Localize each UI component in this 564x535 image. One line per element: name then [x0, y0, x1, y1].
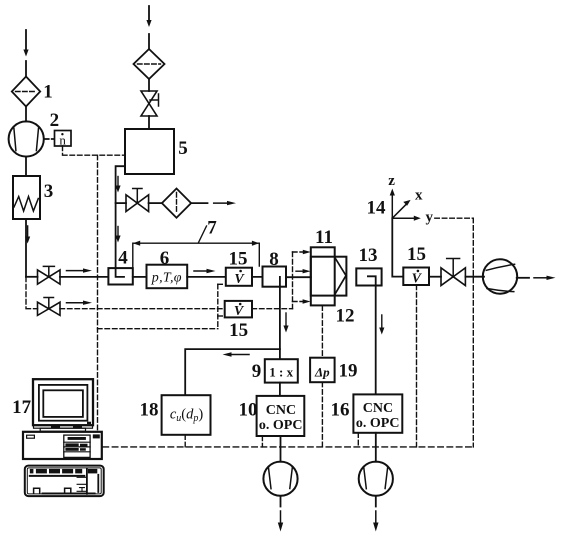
wire inside box13 down to box16 with side arrow	[368, 276, 385, 394]
svg-text:p,T,φ: p,T,φ	[151, 271, 182, 286]
wire to valve V1	[26, 276, 38, 278]
bypass dashed arrows into chamber	[293, 250, 311, 309]
wire sensor2 to node (dashed signal)	[63, 146, 126, 155]
box 8 (sampling head)	[263, 267, 287, 287]
svg-text:10: 10	[239, 400, 258, 421]
filter 2	[134, 49, 165, 79]
svg-text:CNC: CNC	[363, 401, 393, 416]
wire sensor link (dashed)	[44, 138, 54, 140]
svg-text:CNC: CNC	[266, 403, 296, 418]
box 15a (flow meter V-dot)	[226, 268, 252, 286]
valve V4 (bypass)	[38, 298, 61, 316]
wire box15c to valve V3	[429, 276, 441, 278]
valve V3 (outlet)	[441, 259, 465, 286]
box 15c (outlet flow meter)	[403, 268, 429, 286]
dashed signal box15c to bus	[416, 285, 418, 447]
wire filter2 to valve V2	[148, 79, 150, 91]
svg-text:19: 19	[339, 361, 358, 382]
dashed dp to chamber and to bus	[321, 306, 323, 447]
filter 3 (vent filter)	[162, 189, 191, 218]
svg-text:7: 7	[207, 218, 217, 239]
wire box16 to blower B5	[375, 433, 377, 462]
svg-text:V: V	[412, 271, 423, 286]
dashed links to bus	[185, 433, 358, 447]
dp box 19	[310, 358, 335, 383]
svg-text:16: 16	[331, 400, 350, 421]
box 13 (outlet nozzle)	[356, 268, 381, 285]
chamber 11 (tall duct)	[311, 247, 335, 305]
wire inlet arrow top middle	[146, 6, 151, 49]
valve V2 (vertical)	[141, 91, 159, 116]
wire filter1 to blower2	[25, 107, 27, 122]
blower B4 (pump left)	[263, 462, 297, 496]
box 15b (bypass flow meter)	[225, 301, 252, 318]
PC 17 monitor base	[34, 425, 93, 431]
wire valve V2 to box5	[148, 116, 150, 129]
wire box9 to box10	[279, 383, 281, 396]
dashed y-axis link to right riser	[435, 218, 474, 447]
svg-text:17: 17	[12, 397, 32, 418]
wire filter3 outlet with arrow	[191, 201, 236, 205]
PC 17 keyboard	[25, 466, 104, 497]
box 18 (cu(dp) computer box)	[162, 395, 211, 435]
wire B4 outlet arrow down	[278, 496, 283, 532]
filter 1	[12, 77, 40, 107]
wire B5 outlet arrow down	[373, 496, 378, 532]
dashed bypass run lower (valve V4 line)	[26, 277, 38, 309]
blower B3 (suction fan right)	[483, 259, 517, 293]
dashed bus (PC data line)	[103, 446, 473, 448]
wire box10 to blower B4	[280, 436, 282, 462]
svg-text:13: 13	[359, 245, 378, 266]
wire from box5 outlet down into box4 with arrows	[115, 166, 125, 277]
svg-text:y: y	[426, 210, 434, 226]
PC 17 monitor	[33, 379, 93, 425]
blower B5 (pump right)	[359, 462, 393, 496]
wire box4 to box6	[133, 276, 147, 278]
chamber 12 (nozzle section)	[311, 257, 347, 296]
svg-text:V: V	[234, 304, 245, 319]
wire tap from box8 down to box9 with side arrow	[280, 277, 289, 360]
svg-text:2: 2	[50, 110, 60, 131]
box 10 (CNC o. OPC left)	[257, 396, 305, 436]
box 5 (dust feeder)	[125, 129, 174, 174]
wire box6 to box15a with flow arrow	[187, 269, 226, 277]
svg-text:11: 11	[315, 227, 333, 248]
dimension 7 with extension ticks	[133, 226, 259, 268]
wire coord14 down to box15c	[392, 218, 403, 276]
svg-text:12: 12	[336, 306, 355, 327]
svg-text:8: 8	[269, 249, 279, 270]
wire valve V3 to blower B3	[465, 276, 484, 278]
wire V1 to box4	[60, 276, 108, 278]
svg-text:18: 18	[140, 400, 159, 421]
svg-text:o. OPC: o. OPC	[356, 416, 400, 431]
box 6 (p,T,phi sensors)	[147, 265, 188, 289]
speed sensor box (n-dot)	[55, 131, 72, 147]
wire inlet arrow left branch	[23, 30, 28, 77]
wire link line (x=185) to tap with left arrow	[185, 349, 280, 395]
wire box8 to chamber 11	[286, 276, 311, 278]
box 4 (inlet section)	[108, 268, 132, 284]
wire valve to filter3	[149, 202, 162, 204]
svg-text:6: 6	[160, 248, 170, 269]
branch wire to vent valve	[116, 202, 126, 204]
wire blower2 to heatexchanger3	[25, 157, 27, 176]
svg-text:15: 15	[229, 320, 248, 341]
svg-text:x: x	[415, 187, 423, 203]
svg-text:z: z	[388, 173, 395, 189]
svg-text:Δp: Δp	[314, 364, 330, 379]
svg-text:9: 9	[252, 361, 262, 382]
svg-text:5: 5	[178, 138, 188, 159]
wire box15a to box8	[252, 276, 280, 278]
dashed run V4 to box15b and to bypass riser	[60, 308, 293, 310]
svg-text:15: 15	[229, 249, 248, 270]
svg-text:cu(dp): cu(dp)	[170, 407, 204, 425]
box 9 (dilution 1:x)	[265, 359, 298, 382]
PC 17 case	[23, 432, 102, 459]
coordinate system 14	[390, 189, 421, 221]
wire outlet arrow right	[517, 276, 556, 280]
svg-text:n: n	[59, 132, 66, 147]
svg-text:15: 15	[407, 244, 426, 265]
blower 2	[9, 121, 44, 156]
svg-text:14: 14	[367, 198, 387, 219]
dashed signal net left (sensor2 to PC, meters)	[98, 155, 225, 431]
svg-text:3: 3	[44, 181, 54, 202]
svg-text:1: 1	[43, 82, 53, 103]
svg-text:4: 4	[118, 248, 128, 269]
flow arrow after V1	[67, 268, 93, 272]
box 16 (CNC o. OPC right)	[353, 394, 402, 432]
flow arrow after V4	[67, 301, 93, 305]
heat exchanger 3	[13, 176, 40, 219]
svg-text:1 : x: 1 : x	[269, 364, 293, 379]
valve V1 (main line)	[38, 266, 61, 284]
svg-text:o. OPC: o. OPC	[259, 418, 303, 433]
valve V5 (vent branch)	[126, 189, 149, 212]
wire heatexchanger3 down with arrow	[25, 219, 30, 277]
